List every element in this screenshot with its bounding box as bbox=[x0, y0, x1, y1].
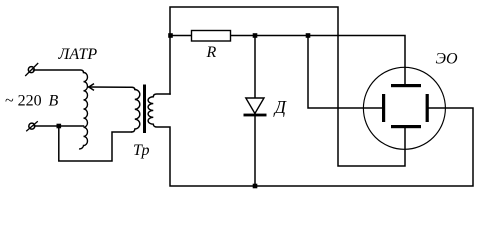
junction node (LATR bottom tap) bbox=[57, 124, 62, 129]
wire CRT left plate branch bbox=[308, 36, 382, 109]
junction node (left vertical / resistor line) bbox=[168, 33, 173, 38]
wire resistor line right segment + CRT top stub bbox=[231, 36, 406, 85]
wire LATR bottom to transformer primary bottom bbox=[59, 126, 132, 161]
wire secondary top pin bbox=[153, 94, 170, 97]
svg-text:Тр: Тр bbox=[133, 142, 150, 159]
wire LATR top pin bbox=[34, 70, 84, 73]
oscilloscope bottom plate bbox=[391, 125, 421, 128]
arrow tap of ЛАТР bbox=[89, 84, 94, 91]
junction node (CRT left branch top) bbox=[306, 33, 311, 38]
oscilloscope ЭО envelope circle bbox=[363, 67, 445, 149]
wire secondary bottom pin + bottom bus + right side + CRT right stub bbox=[153, 108, 473, 186]
svg-text:Д: Д bbox=[273, 97, 287, 117]
junction node (diode branch bottom) bbox=[253, 184, 258, 189]
wire diode branch bbox=[254, 36, 256, 187]
autotransformer ЛАТР winding bbox=[79, 73, 88, 149]
svg-text:ЛАТР: ЛАТР bbox=[58, 46, 98, 63]
wire top loop: left vertical, top line, right vertical down to inner bottom line, CRT bottom stub bbox=[170, 7, 405, 166]
transformer Тр core bar bbox=[143, 85, 146, 134]
oscilloscope top plate bbox=[391, 84, 421, 87]
oscilloscope right plate bbox=[426, 94, 429, 122]
transformer Тр secondary winding bbox=[148, 97, 153, 124]
diode Д cathode bar bbox=[244, 114, 267, 117]
oscilloscope left plate bbox=[382, 94, 385, 122]
diode Д triangle bbox=[246, 98, 264, 114]
terminal (input, bottom) bbox=[26, 121, 38, 131]
wire arrow shaft / transformer primary top pin bbox=[89, 87, 135, 90]
junction node (diode branch top) bbox=[253, 33, 258, 38]
terminal (input, top) bbox=[25, 63, 38, 76]
svg-text:R: R bbox=[206, 44, 217, 61]
transformer Тр primary winding bbox=[131, 90, 140, 133]
svg-text:ЭО: ЭО bbox=[436, 51, 458, 68]
wire resistor line left segment bbox=[170, 35, 192, 37]
resistor R body bbox=[192, 31, 231, 42]
svg-text:~ 220: ~ 220 bbox=[5, 93, 42, 110]
svg-text:В: В bbox=[49, 93, 59, 110]
wire LATR bottom tap bbox=[34, 125, 83, 127]
